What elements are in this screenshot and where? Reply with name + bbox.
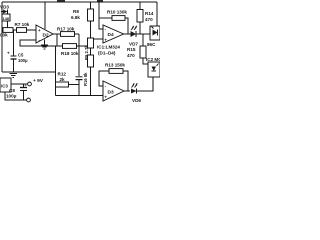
ground: [10, 74, 18, 78]
resistor R10 130k: [107, 10, 127, 21]
svg-text:+: +: [104, 38, 107, 43]
wire D2 ground pin: [44, 40, 46, 46]
text IC1 label: [97, 45, 120, 56]
svg-text:00k: 00k: [0, 33, 8, 38]
terminal +9V: [28, 78, 44, 86]
regulator box: [0, 78, 11, 92]
op-amp D2: [36, 25, 53, 43]
wire D4 minus column: [99, 2, 103, 29]
svg-text:R17 10k: R17 10k: [57, 27, 75, 32]
svg-text:R12: R12: [58, 72, 67, 77]
terminal 0V: [27, 98, 31, 102]
svg-text:D2: D2: [43, 33, 49, 39]
svg-text:R14: R14: [145, 11, 154, 16]
svg-text:+: +: [25, 84, 27, 88]
svg-text:VD3: VD3: [0, 5, 9, 10]
svg-text:D3: D3: [108, 90, 114, 96]
svg-text:100μ: 100μ: [18, 58, 28, 63]
capacitor C8 100u: [6, 84, 27, 101]
wire D2 feedback: [56, 34, 58, 46]
resistor R16 6.8k: [83, 55, 94, 96]
svg-text:C8: C8: [9, 88, 15, 93]
svg-text:R15: R15: [127, 47, 136, 52]
svg-text:R10 130k: R10 130k: [107, 10, 127, 15]
wire top rail: [2, 1, 157, 3]
svg-text:C5: C5: [18, 53, 24, 58]
svg-text:R8: R8: [73, 9, 79, 14]
wire D3 feedback: [123, 71, 128, 91]
svg-text:2k: 2k: [60, 77, 66, 82]
op-amp D4: [103, 25, 124, 43]
svg-text:470: 470: [127, 53, 135, 58]
resistor R13 150k: [105, 63, 125, 74]
resistor R17 10k: [57, 27, 79, 37]
resistor R6: [2, 14, 10, 30]
wire +9V row: [11, 83, 28, 85]
op-amp D3: [103, 81, 124, 101]
svg-text:6.8k: 6.8k: [71, 15, 80, 20]
resistor R12 2k: [56, 72, 80, 88]
ground: [41, 45, 48, 49]
resistor R14 470: [137, 2, 154, 34]
resistor R5 100k: [0, 28, 13, 38]
resistor R8 6.8k: [71, 2, 94, 38]
svg-text:IC3: IC3: [1, 84, 8, 89]
wire right edge drop: [156, 2, 158, 26]
svg-text:R18 10k: R18 10k: [61, 51, 79, 56]
optocoupler box top right: [147, 26, 160, 47]
wire D4 output: [124, 33, 132, 35]
svg-text:D4: D4: [108, 32, 114, 38]
wire R12 column: [55, 46, 57, 82]
svg-text:100μ: 100μ: [6, 94, 17, 99]
svg-text:+: +: [38, 28, 41, 33]
text top caption marks: [57, 0, 103, 2]
svg-text:R13 150k: R13 150k: [105, 63, 125, 68]
wire D2 power: [44, 2, 46, 29]
resistor R18 10k: [57, 44, 88, 56]
svg-text:+: +: [7, 51, 10, 56]
wire mid column: [78, 34, 80, 76]
svg-text:VD7: VD7: [129, 42, 138, 47]
svg-text:470: 470: [145, 17, 153, 22]
svg-text:R7 10k: R7 10k: [15, 22, 30, 27]
svg-text:IC1:LM324: IC1:LM324: [97, 45, 120, 50]
wire input row: [2, 29, 36, 31]
svg-text:R16 8k: R16 8k: [83, 72, 88, 86]
svg-text:+ 9V: + 9V: [33, 78, 44, 84]
optocoupler IC2: [146, 57, 166, 91]
wire D3 output: [124, 90, 130, 92]
LED VD5: [129, 26, 138, 47]
svg-text:86C: 86C: [147, 42, 156, 47]
wire left rail: [1, 2, 3, 72]
capacitor C6: [76, 77, 83, 96]
LED VD6: [131, 83, 141, 103]
capacitor C5 100u: [7, 30, 28, 72]
wire LED to IC2: [137, 77, 154, 91]
wire 0V row: [5, 92, 27, 100]
svg-text:148: 148: [3, 17, 9, 21]
resistor R9 2.7k: [84, 38, 94, 60]
wire D4 plus tap: [94, 38, 104, 40]
diode VD3: [0, 5, 9, 15]
wire D3 plus row: [56, 95, 104, 97]
resistor R7 10k: [15, 22, 30, 33]
svg-text:IC2 MOC: IC2 MOC: [146, 57, 160, 62]
wire ground row: [2, 71, 56, 73]
svg-text:(D1–D4): (D1–D4): [98, 51, 116, 56]
wire LED row: [136, 33, 150, 35]
svg-text:VD6: VD6: [132, 98, 141, 103]
wire D2 output: [53, 33, 60, 35]
wire D4 feedback: [125, 18, 128, 34]
resistor R15 470: [127, 34, 148, 64]
